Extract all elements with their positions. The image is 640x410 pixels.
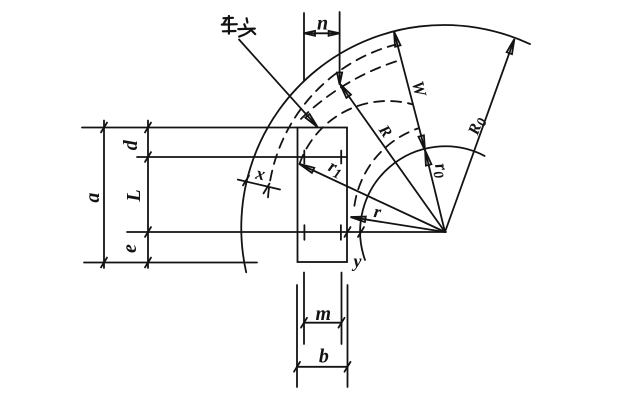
- y tick at body edge: [345, 227, 351, 237]
- svg-text:d: d: [120, 139, 142, 150]
- dashed path D1 (outer body clearance trajectory): [268, 45, 396, 198]
- svg-text:b: b: [319, 346, 329, 368]
- vehicle rear line extended left: [84, 262, 257, 264]
- horizontal centre line through turning centre: [127, 231, 446, 233]
- svg-text:n: n: [317, 12, 328, 34]
- arrow R0: [507, 39, 515, 54]
- svg-text:x: x: [253, 163, 267, 185]
- dashed path D3 (front inner trajectory r1): [300, 101, 413, 164]
- svg-text:a: a: [82, 193, 104, 203]
- arrow r: [351, 217, 366, 223]
- arrow W bottom: [419, 135, 426, 150]
- arrow r1: [300, 164, 315, 173]
- big outer solid arc (outer lane edge R0): [241, 25, 530, 272]
- text che (vehicle) glyph: [222, 16, 237, 34]
- inner solid arc (inner lane edge r0): [360, 146, 484, 260]
- vehicle body rectangle: [298, 128, 348, 263]
- vehicle front line extended left: [82, 127, 298, 129]
- n dimension line: [304, 32, 340, 34]
- b tick left: [294, 362, 300, 372]
- svg-text:W: W: [408, 79, 431, 100]
- svg-text:R0: R0: [465, 115, 491, 140]
- tick d bottom: [145, 152, 151, 162]
- m tick right: [339, 318, 345, 328]
- front wheel tick left: [303, 151, 305, 164]
- tick e bottom: [145, 258, 151, 268]
- svg-text:r1: r1: [324, 156, 347, 183]
- tick a top: [101, 123, 107, 133]
- x tick on dashed arc: [264, 184, 270, 194]
- arrow vehicle front: [305, 114, 317, 127]
- tick L bottom: [145, 227, 151, 237]
- svg-text:y: y: [352, 251, 363, 271]
- n dimension left extension line: [303, 13, 305, 81]
- tick a bottom: [101, 258, 107, 268]
- dashed path D4 (rear inner trajectory r): [354, 128, 419, 206]
- rear wheel tick left: [303, 225, 305, 240]
- n dimension right extension line: [339, 12, 341, 83]
- m extension line right: [341, 273, 343, 345]
- m dimension line: [304, 322, 342, 324]
- arrow W top: [394, 32, 401, 47]
- radius line R0: [445, 42, 513, 232]
- m tick left: [301, 318, 307, 328]
- front axle line: [137, 156, 347, 158]
- dashed path D2 (front outer corner trajectory R): [301, 60, 400, 119]
- text tou (head) glyph: [238, 18, 255, 36]
- radius line r: [352, 217, 446, 232]
- b dimension line: [297, 366, 348, 368]
- radius line R: [341, 85, 445, 232]
- b extension line right: [347, 285, 349, 387]
- radius line r1: [301, 165, 446, 233]
- n arrow right: [329, 31, 340, 36]
- svg-text:L: L: [123, 189, 145, 202]
- svg-text:m: m: [316, 303, 332, 325]
- x tick on big arc: [243, 176, 249, 186]
- arrow r0: [425, 150, 431, 165]
- front wheel tick right: [340, 151, 342, 164]
- swept width line W: [394, 32, 425, 151]
- y tick at inner arc: [358, 227, 364, 237]
- m extension line left: [303, 273, 305, 345]
- tick d top: [145, 123, 151, 133]
- svg-text:r: r: [373, 201, 384, 222]
- n right extension arrow onto dashed path: [337, 73, 342, 85]
- radius line r0: [425, 152, 445, 232]
- b tick right: [345, 362, 351, 372]
- leader line from che tou label: [239, 40, 317, 126]
- svg-text:e: e: [119, 244, 141, 253]
- rear wheel tick right: [340, 225, 342, 240]
- b extension line left: [296, 285, 298, 387]
- x dimension line: [238, 180, 280, 190]
- arrow R: [340, 84, 351, 98]
- dimension line d L e (vertical): [147, 121, 149, 269]
- dimension line a (vertical): [103, 121, 105, 269]
- n arrow left: [304, 31, 315, 36]
